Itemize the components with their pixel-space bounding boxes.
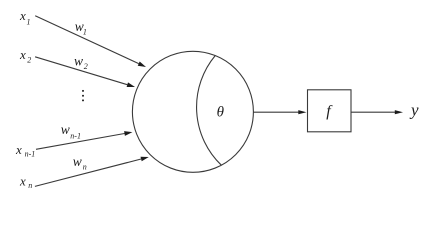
threshold arc inside neuron xyxy=(197,56,222,166)
svg-text:n-1: n-1 xyxy=(25,149,36,158)
svg-text:x: x xyxy=(15,142,22,157)
wire wn-1 input line xyxy=(36,134,125,150)
wire w2 input line xyxy=(35,57,127,85)
svg-text:x: x xyxy=(19,174,26,189)
svg-text:2: 2 xyxy=(84,62,88,71)
vertical ellipsis dot 2 xyxy=(82,95,84,97)
arrowhead input 2 xyxy=(127,82,135,87)
arrowhead input n xyxy=(141,157,149,162)
arrowhead to y xyxy=(395,110,403,114)
svg-text:θ: θ xyxy=(217,104,225,120)
vertical ellipsis dot 1 xyxy=(82,90,84,92)
wire wn input line xyxy=(35,159,141,186)
arrowhead input 1 xyxy=(138,62,146,68)
svg-text:2: 2 xyxy=(27,55,31,64)
vertical ellipsis dot 3 xyxy=(82,99,84,101)
svg-text:x: x xyxy=(19,8,26,23)
svg-text:w: w xyxy=(61,122,70,137)
arrowhead input n-1 xyxy=(124,131,132,136)
wire w1 input line xyxy=(35,16,139,64)
svg-text:n: n xyxy=(28,181,32,190)
wire neuron to f box xyxy=(253,111,298,113)
svg-text:x: x xyxy=(19,47,26,62)
arrowhead into f box xyxy=(298,110,306,114)
svg-text:w: w xyxy=(73,154,82,169)
f box xyxy=(308,90,352,132)
svg-text:1: 1 xyxy=(83,28,87,37)
svg-text:n: n xyxy=(83,163,87,172)
svg-text:f: f xyxy=(326,103,333,120)
svg-text:w: w xyxy=(74,53,83,68)
svg-text:y: y xyxy=(409,101,419,120)
wire f box to output y xyxy=(351,111,395,113)
svg-text:n-1: n-1 xyxy=(70,132,81,141)
svg-text:1: 1 xyxy=(27,18,31,27)
neuron body circle xyxy=(132,51,253,172)
